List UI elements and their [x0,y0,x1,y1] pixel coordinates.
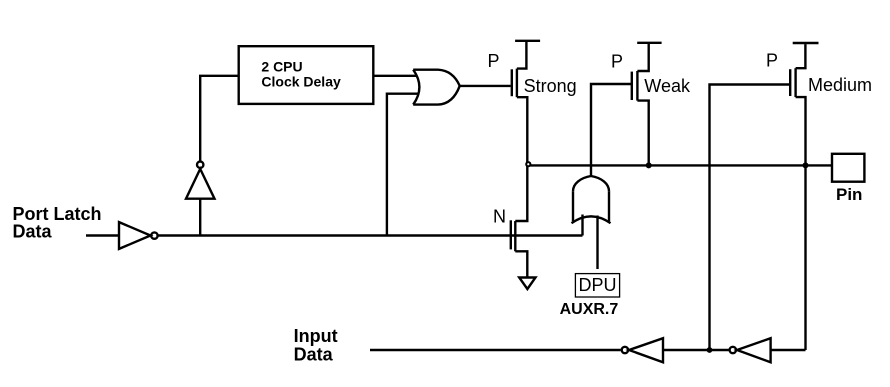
pmos Q1 Strong [511,69,513,96]
node ring junction (strong drain / bus) [526,162,530,166]
box DPU [575,274,619,297]
svg-text:AUXR.7: AUXR.7 [560,301,619,318]
pmos Q3 Medium [789,69,791,96]
box U3 2 CPU Clock Delay [239,46,374,104]
svg-text:2 CPU: 2 CPU [261,59,302,75]
wire input data net [370,349,621,351]
wire U4 to U5 [663,349,729,351]
label Port Latch Data [13,204,102,242]
svg-text:Data: Data [13,222,53,242]
node junction dot (weak drain / bus) [646,162,652,168]
wire up to inverter U2 [199,199,201,236]
wire DPU to G2 input B [596,216,598,270]
svg-text:Input: Input [294,326,338,346]
svg-text:Medium: Medium [808,75,872,95]
label AUXR.7 [560,301,619,318]
wire port latch net up to OR gate input B [387,94,418,236]
wire delay box output to OR gate input A [373,75,417,77]
svg-text:P: P [766,51,778,71]
pmos Q2 Weak [631,72,633,100]
wire port latch net [158,234,582,236]
or-gate G2 (pull-up control, pointing up) [573,176,609,191]
inverter U5 (pin buffer, pointing left) [730,347,736,353]
node junction dot (medium drain / bus / pin) [803,162,809,168]
svg-text:P: P [611,52,623,72]
svg-text:Strong: Strong [524,76,577,96]
wire pin to U5 input [771,349,806,351]
node junction dot (feedback tap) [707,347,713,353]
wire pin node down to input buffer [804,165,806,350]
vdd T-bar (Q2) [637,42,661,44]
label P (Q3) [766,51,778,71]
wire G2 output up to Q2 gate [591,84,631,176]
ground symbol [519,278,535,290]
svg-text:Pin: Pin [836,185,862,204]
label P (Q2) [611,52,623,72]
svg-text:Weak: Weak [644,76,691,96]
vdd T-bar (Q3) [793,42,819,44]
svg-text:Clock Delay: Clock Delay [261,74,341,90]
wire U2 output to delay box [200,76,239,161]
inverter U4 (input buffer, pointing left) [622,347,628,353]
wire G1 output to Q1 gate [460,85,511,87]
or-gate G1 [413,70,419,105]
nmos Q4 N [493,207,506,227]
label P (Q1) [488,51,500,71]
svg-text:DPU: DPU [579,275,617,295]
svg-text:P: P [488,51,500,71]
vdd T-bar (Q1) [515,40,540,42]
inverter U1 (port latch data) [119,222,151,249]
wire pin bus [527,164,832,166]
wire port latch input [86,234,119,236]
box Pin [832,154,864,182]
svg-text:N: N [493,207,506,227]
label Input Data [294,326,338,364]
inverter U2 (to clock delay, pointing up) [186,169,215,199]
wire port latch net up into G2 input A [581,215,583,236]
wire Q3 gate feedback [710,85,790,351]
svg-text:Data: Data [294,345,334,365]
